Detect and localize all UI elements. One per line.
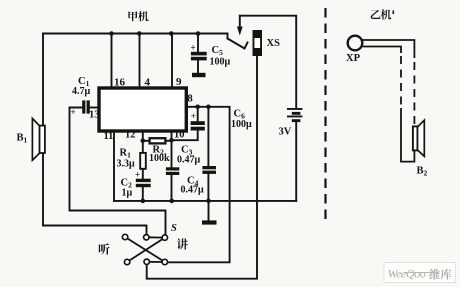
wire pin12 node to R2 left: [143, 140, 150, 142]
wire R1 bottom to C2: [142, 169, 144, 179]
wire C3 top: [171, 140, 173, 167]
wire left vertical from top rail to switch TM: [43, 34, 147, 235]
node rail C3: [169, 199, 174, 204]
wire jack contact of XS: [228, 39, 248, 49]
ground bar at bottom rail: [202, 220, 217, 224]
svg-text:3V: 3V: [279, 127, 292, 138]
wire pin4 stub: [139, 34, 141, 89]
capacitor C1 plates: [82, 100, 85, 113]
svg-text:WeeQoo: WeeQoo: [388, 267, 426, 281]
wire pin10 stub: [171, 131, 173, 140]
wire pin8 to C6 C4 and down to switch BR: [168, 107, 230, 262]
arrow head on plug line: [237, 27, 243, 36]
node rail ground: [206, 199, 211, 204]
dashed separator line: [324, 8, 326, 222]
label ting listen: [99, 243, 110, 254]
jack XS body: [253, 30, 263, 56]
capacitor C2 plates: [136, 179, 151, 182]
svg-text:1μ: 1μ: [122, 188, 133, 199]
svg-text:+: +: [135, 170, 140, 180]
wire pin9 stub: [171, 34, 173, 89]
wire XP to B2 top: [363, 40, 415, 58]
speaker B1 cone: [32, 119, 39, 161]
label jiang talk: [177, 238, 188, 249]
node pin10: [169, 138, 174, 143]
svg-text:13: 13: [89, 110, 100, 121]
label yiji B-unit: [371, 10, 381, 19]
switch S crossed links: [125, 237, 165, 262]
resistor R2: [150, 138, 166, 143]
svg-text:100μ: 100μ: [231, 119, 252, 130]
svg-text:100k: 100k: [149, 153, 170, 164]
wire C3 bottom to rail: [171, 175, 173, 201]
watermark: [384, 263, 456, 283]
svg-text:12: 12: [125, 130, 136, 141]
wire bottom rail: [114, 200, 296, 202]
plug XP: [348, 36, 363, 51]
wire C5 bottom to ground bar: [197, 60, 199, 72]
capacitor C3 plates: [166, 167, 179, 170]
svg-text:3.3μ: 3.3μ: [117, 159, 136, 170]
wire battery plus loop with arrow into jack: [240, 16, 296, 108]
svg-text:9: 9: [176, 76, 182, 88]
wire C6 bottom to pin10 node: [172, 131, 198, 141]
wire R2 right to pin10 node: [165, 140, 171, 142]
svg-text:11: 11: [104, 131, 114, 142]
node rail C2: [141, 199, 146, 204]
ground bar under C5: [192, 73, 206, 77]
svg-text:0.47μ: 0.47μ: [181, 185, 205, 196]
switch S contacts: [122, 234, 167, 264]
wire pin13 to C1: [90, 107, 99, 109]
node top rail pin9: [169, 31, 174, 36]
node top rail C5: [196, 31, 201, 36]
resistor R1: [140, 153, 146, 169]
IC U1 block: [99, 88, 186, 131]
node top rail pin4: [137, 31, 142, 36]
speaker B1 driver: [40, 126, 45, 153]
svg-text:16: 16: [114, 77, 126, 89]
wire C1 left then down to switch TR: [70, 108, 166, 235]
svg-text:0.47μ: 0.47μ: [177, 155, 201, 166]
wire battery negative to bottom rail: [295, 121, 297, 201]
svg-text:4: 4: [145, 77, 151, 89]
node pin8 C4: [206, 105, 211, 110]
wire C5 top: [197, 34, 199, 52]
wire pin12 stub and node: [142, 131, 144, 141]
capacitor C4 plates: [202, 166, 216, 169]
capacitor C5 plates: [191, 52, 207, 56]
svg-text:4.7μ: 4.7μ: [72, 86, 91, 97]
wire C6 top stub: [197, 107, 199, 121]
wire C4 top stub: [207, 107, 209, 166]
svg-text:100μ: 100μ: [210, 57, 231, 68]
wire XS sleeve down to switch BM: [147, 56, 257, 279]
wire C2 bottom to rail: [142, 187, 144, 201]
wire pin11 down: [113, 131, 115, 201]
svg-text:10: 10: [174, 130, 185, 141]
svg-text:XS: XS: [267, 38, 281, 49]
speaker B2 cone: [418, 120, 425, 156]
capacitor C6 plates: [191, 121, 205, 125]
node top rail pin16: [109, 31, 114, 36]
speaker B2 driver: [413, 126, 418, 150]
node pin8 C6: [195, 105, 200, 110]
wire pin16 stub: [111, 34, 113, 89]
node dots: [109, 31, 211, 203]
svg-text:8: 8: [187, 93, 193, 105]
node pin12: [141, 139, 146, 144]
battery GB 3V: [287, 108, 302, 110]
wire R1 top: [142, 141, 144, 153]
wire XP to B2 bottom: [363, 47, 401, 54]
svg-text:XP: XP: [346, 53, 361, 64]
jack XS inner: [254, 38, 260, 48]
svg-text:+: +: [191, 111, 196, 121]
svg-text:+: +: [191, 43, 196, 53]
svg-text:+: +: [71, 107, 76, 117]
wire top rail: [43, 34, 228, 39]
svg-text:S: S: [171, 223, 177, 234]
wire ground stub: [208, 201, 210, 221]
label jiaji A-unit: [128, 11, 137, 21]
wire C4 bottom to rail: [207, 174, 209, 201]
